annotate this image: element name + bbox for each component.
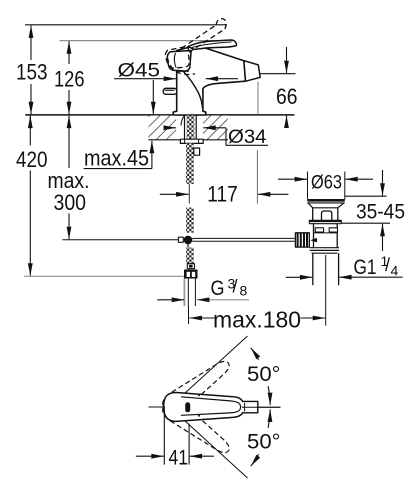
svg-text:41: 41 [169, 445, 189, 469]
svg-text:420: 420 [16, 147, 48, 172]
deck / mounting surface line [25, 114, 294, 116]
rod collar [178, 237, 183, 242]
handle lever [188, 40, 237, 49]
G1 1/4 arrows [286, 276, 313, 278]
knurled rod nut left [295, 233, 309, 247]
dashed handle (raised position) [164, 19, 226, 75]
rod line left [62, 239, 178, 241]
G1 1/4 label [354, 253, 399, 279]
svg-text:max.45: max.45 [84, 145, 149, 170]
svg-text:/: / [233, 277, 238, 297]
hose tube stub [183, 279, 185, 307]
spout height reference line [261, 73, 296, 75]
body cap seam [177, 70, 189, 72]
50° labels [169, 362, 281, 470]
handle knob (side view) [167, 51, 191, 72]
dim max300 [68, 116, 70, 168]
pop-up rod knob on body [163, 88, 177, 94]
faucet body + spout [173, 47, 245, 115]
svg-text:153: 153 [16, 60, 48, 85]
dim 117 [160, 193, 189, 195]
swing axis lower [185, 421, 248, 479]
svg-text:117: 117 [207, 181, 238, 206]
svg-text:8: 8 [240, 282, 248, 298]
svg-text:Ø34: Ø34 [228, 126, 267, 148]
svg-text:4: 4 [391, 263, 399, 279]
rod double line right [192, 237, 295, 239]
centerline through stub [242, 406, 281, 408]
Ø63 extension ticks [307, 172, 309, 200]
waste main body [314, 224, 338, 248]
centerline segments [149, 406, 165, 408]
dim max.180 [189, 317, 214, 319]
Ø34 arrows [166, 127, 177, 129]
max.45 leader [84, 168, 152, 170]
svg-text:G1: G1 [354, 255, 377, 279]
svg-text:max.180: max.180 [213, 307, 301, 333]
svg-text:300: 300 [54, 190, 87, 215]
svg-text:Ø63: Ø63 [311, 171, 342, 193]
swing arcs [251, 348, 270, 466]
aerator [244, 61, 260, 81]
small fitting [187, 264, 194, 269]
G3/8 arrows [157, 299, 184, 301]
counter bottom edge [149, 139, 228, 141]
tailpiece centerline [325, 255, 327, 326]
counter cross-section hatched right [203, 116, 228, 140]
shank through counter [184, 116, 186, 140]
dim 153 [30, 25, 32, 60]
mounting nut below counter [180, 139, 203, 143]
svg-text:/: / [385, 255, 390, 275]
waste upper body [313, 208, 338, 220]
inner wedge [181, 397, 241, 416]
hose section 3 below ball [187, 244, 189, 248]
svg-text:50°: 50° [247, 429, 281, 453]
dim Ø63 [278, 178, 307, 180]
dim 420 [29, 116, 31, 146]
second flange [309, 220, 341, 222]
overflow slots [315, 228, 323, 232]
Ø45 leader [114, 78, 176, 80]
svg-text:G: G [211, 276, 225, 300]
knob slot [185, 402, 190, 412]
cup sides [308, 203, 344, 208]
svg-text:35-45: 35-45 [356, 200, 405, 224]
dim 41 [136, 406, 214, 465]
hose side fitting [194, 148, 200, 155]
reference line top (handle raised height) [25, 24, 227, 26]
tailpiece tube [312, 253, 314, 285]
small dots [198, 394, 200, 396]
body front curve [184, 72, 203, 110]
svg-text:Ø45: Ø45 [118, 60, 161, 82]
dim 35-45 [345, 195, 387, 197]
svg-text:50°: 50° [247, 362, 281, 386]
G 3/8 label [211, 275, 248, 300]
dashed handle positions (top view) [159, 354, 235, 459]
reference line gray (handle closed height) [60, 40, 233, 42]
hose section 1 [186, 143, 194, 184]
hose centerline gap [188, 184, 190, 204]
centerline below tube (max180 left extension) [188, 306, 190, 324]
hose section 2 [186, 208, 194, 233]
rod ball joint [184, 236, 193, 245]
stub cartridge [242, 401, 258, 412]
swing axis upper [185, 336, 248, 394]
spout tip drop line [257, 82, 259, 114]
knob inner curve [174, 53, 176, 68]
clamp pointer [310, 238, 317, 243]
solid handle (top view) [164, 393, 258, 422]
svg-text:126: 126 [54, 66, 85, 91]
G3/8 hose nut [184, 270, 198, 279]
hose-end reference line gray (420 bottom) [24, 275, 186, 277]
dim 126 [68, 41, 70, 64]
svg-text:66: 66 [276, 84, 298, 109]
waste flange top (Ø63) [307, 199, 345, 202]
waste bottom cap [310, 248, 339, 254]
outer outline [164, 393, 245, 422]
body seam at nut level [314, 232, 338, 234]
counter cross-section hatched left [149, 116, 177, 140]
dim 66 [286, 47, 288, 73]
lift knob [322, 211, 332, 220]
